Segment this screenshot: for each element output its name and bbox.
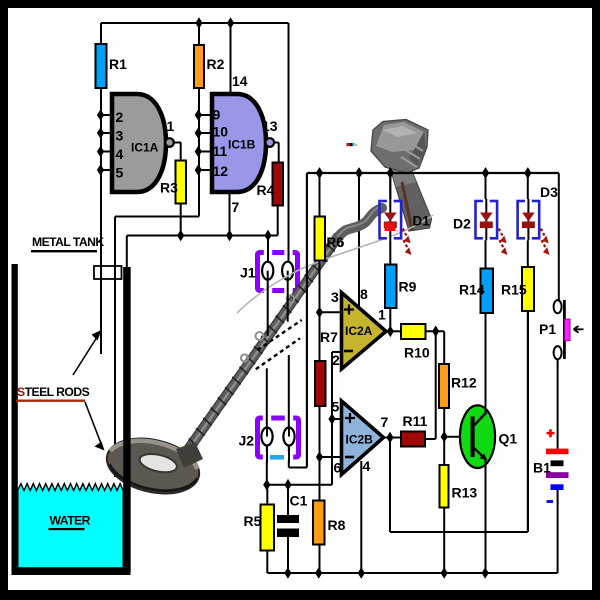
svg-text:2: 2 — [116, 109, 124, 125]
svg-text:12: 12 — [213, 163, 229, 179]
svg-text:J1: J1 — [240, 265, 256, 281]
svg-text:METAL TANK: METAL TANK — [32, 235, 104, 249]
svg-text:Q1: Q1 — [499, 431, 518, 447]
svg-text:IC1A: IC1A — [131, 141, 159, 155]
svg-text:5: 5 — [332, 399, 340, 415]
svg-text:R4: R4 — [257, 182, 275, 198]
svg-text:R6: R6 — [327, 235, 345, 250]
svg-text:IC1B: IC1B — [228, 138, 256, 152]
svg-text:1: 1 — [378, 307, 386, 323]
svg-text:IC2A: IC2A — [345, 324, 373, 338]
svg-text:14: 14 — [232, 73, 248, 89]
svg-text:IC2B: IC2B — [346, 433, 374, 447]
svg-text:R14: R14 — [459, 282, 485, 298]
svg-text:D3: D3 — [540, 184, 558, 200]
svg-text:6: 6 — [334, 460, 342, 476]
svg-text:4: 4 — [116, 146, 124, 162]
svg-text:R8: R8 — [328, 517, 346, 533]
svg-text:1: 1 — [167, 118, 175, 134]
svg-text:7: 7 — [381, 414, 389, 430]
svg-text:R10: R10 — [404, 345, 430, 361]
svg-text:10: 10 — [213, 124, 229, 140]
svg-text:13: 13 — [262, 118, 278, 134]
svg-text:3: 3 — [116, 128, 124, 144]
svg-text:2: 2 — [332, 352, 340, 368]
svg-text:B1: B1 — [533, 460, 551, 476]
svg-text:9: 9 — [213, 107, 221, 123]
svg-text:D2: D2 — [453, 216, 471, 232]
svg-text:11: 11 — [213, 143, 228, 159]
svg-text:R13: R13 — [452, 485, 478, 501]
svg-text:C1: C1 — [290, 493, 308, 509]
svg-text:R3: R3 — [160, 180, 178, 196]
svg-text:D1: D1 — [413, 214, 431, 229]
svg-text:J2: J2 — [239, 433, 255, 449]
svg-text:7: 7 — [232, 199, 240, 215]
svg-text:5: 5 — [116, 165, 124, 181]
svg-text:R2: R2 — [207, 56, 225, 72]
svg-text:R11: R11 — [403, 413, 428, 429]
svg-text:WATER: WATER — [50, 514, 91, 528]
svg-text:4: 4 — [363, 458, 371, 474]
svg-text:8: 8 — [360, 286, 368, 302]
svg-text:R7: R7 — [320, 329, 338, 345]
svg-text:R5: R5 — [244, 513, 262, 529]
svg-text:3: 3 — [331, 289, 339, 305]
svg-text:R9: R9 — [399, 279, 417, 295]
svg-text:R12: R12 — [451, 375, 477, 391]
svg-text:STEEL RODS: STEEL RODS — [17, 385, 90, 399]
svg-text:R1: R1 — [109, 56, 127, 72]
svg-text:R15: R15 — [501, 282, 527, 298]
svg-text:P1: P1 — [539, 321, 556, 337]
